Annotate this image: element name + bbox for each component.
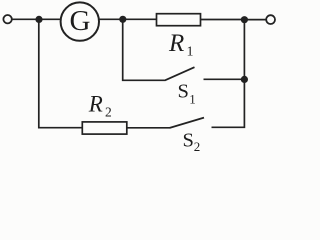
wire terminal-left to junction A <box>12 18 39 20</box>
wire junction B to resistor R1 <box>123 18 157 20</box>
junction C <box>241 16 248 23</box>
wire right vertical (junction C through junction D down to bottom) <box>212 20 245 128</box>
switch S1 blade <box>165 67 194 80</box>
svg-text:S: S <box>183 129 194 151</box>
svg-text:S: S <box>178 81 189 103</box>
svg-text:R: R <box>88 92 103 117</box>
svg-text:2: 2 <box>105 105 112 120</box>
junction D <box>241 76 248 83</box>
svg-text:1: 1 <box>187 45 194 60</box>
label R2 <box>88 92 112 120</box>
terminal left <box>3 15 11 23</box>
label S2 <box>183 129 201 154</box>
wire junction A to galvanometer <box>39 18 61 20</box>
galvanometer G <box>61 2 99 40</box>
label R1 <box>168 30 194 60</box>
svg-text:G: G <box>70 5 91 37</box>
label S1 <box>178 81 196 107</box>
wire switch S1 contact to junction D <box>204 78 245 80</box>
terminal right <box>266 15 275 24</box>
resistor R2 <box>82 122 127 134</box>
wire resistor R2 to switch S2 pivot <box>127 127 170 129</box>
svg-text:1: 1 <box>189 91 196 106</box>
wire galvanometer to junction B <box>99 18 123 20</box>
wire middle vertical (junction B down to switch S1 branch) <box>123 19 166 80</box>
svg-text:2: 2 <box>194 139 201 154</box>
junction B <box>119 16 126 23</box>
svg-text:R: R <box>168 30 184 57</box>
wire junction C to terminal right <box>244 19 266 21</box>
wire resistor R1 to junction C <box>201 19 245 21</box>
switch S2 blade <box>170 118 204 128</box>
junction A <box>35 16 42 23</box>
wire left vertical (junction A down to bottom branch) <box>39 19 83 127</box>
resistor R1 <box>157 14 201 26</box>
